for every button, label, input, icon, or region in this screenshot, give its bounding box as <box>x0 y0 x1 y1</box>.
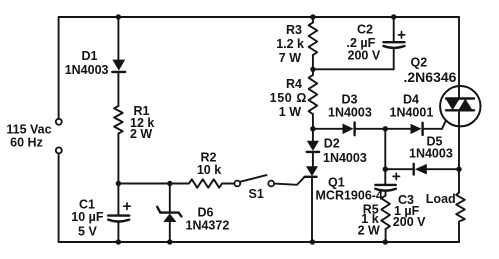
wire D5 anode lead <box>427 168 459 170</box>
node D6 bottom <box>167 239 172 244</box>
svg-text:D4: D4 <box>403 92 419 106</box>
svg-text:1N4003: 1N4003 <box>323 151 367 165</box>
node C3/D5 junction <box>383 167 388 172</box>
svg-text:R3: R3 <box>286 23 302 37</box>
wire triac MT2 lead <box>458 17 460 99</box>
resistor R5 <box>381 196 390 230</box>
node top of D1 column <box>116 14 121 19</box>
svg-text:C2: C2 <box>357 22 373 36</box>
svg-text:60 Hz: 60 Hz <box>10 136 43 150</box>
node top of R3 column <box>310 14 315 19</box>
diode D1 <box>112 60 125 71</box>
node R1/C1/mid rail <box>116 181 121 186</box>
wire bottom rail <box>59 241 459 243</box>
svg-text:D3: D3 <box>342 92 358 106</box>
node R5 bottom <box>383 239 388 244</box>
svg-text:150 Ω: 150 Ω <box>270 91 307 105</box>
wire D3 anode <box>313 128 343 130</box>
svg-text:1N4003: 1N4003 <box>328 105 372 119</box>
svg-text:S1: S1 <box>249 187 264 201</box>
svg-text:1N4003: 1N4003 <box>65 63 109 77</box>
wire D4 anode <box>385 128 410 130</box>
svg-text:Load: Load <box>426 192 456 206</box>
wire C2 bottom lead <box>393 48 395 69</box>
diode D4 <box>411 124 422 134</box>
wire Q1 cathode <box>311 177 313 242</box>
node Q1 bottom <box>310 239 315 244</box>
svg-text:200 V: 200 V <box>393 215 426 229</box>
node C1 bottom <box>116 239 121 244</box>
svg-text:1.2 k: 1.2 k <box>276 37 304 51</box>
wire mid rail <box>118 183 189 185</box>
svg-text:1N4003: 1N4003 <box>409 147 453 161</box>
svg-text:D6: D6 <box>198 206 214 220</box>
wire R1 bottom <box>117 134 119 184</box>
wire R4 bottom to D2 <box>312 114 314 141</box>
svg-text:D1: D1 <box>82 49 98 63</box>
resistor R3 <box>309 23 318 56</box>
svg-text:200 V: 200 V <box>348 48 381 62</box>
diode D3 <box>343 124 354 135</box>
svg-text:2 W: 2 W <box>358 223 380 237</box>
wire D3 cathode to node <box>355 128 386 130</box>
wire R2 to S1 <box>222 183 234 185</box>
wire C1 top lead <box>117 184 119 216</box>
svg-text:115 Vac: 115 Vac <box>6 123 51 137</box>
wire top rail <box>59 16 459 18</box>
wire R3 top lead <box>312 17 314 23</box>
wire left vertical lower <box>58 154 60 243</box>
wire D6 anode lead <box>169 222 171 242</box>
wire D1 anode <box>117 17 119 60</box>
resistor R1 <box>114 106 123 134</box>
switch S1 <box>234 181 240 187</box>
svg-text:1 W: 1 W <box>279 105 301 119</box>
diode D5 <box>413 164 415 175</box>
wire triac MT1 lead <box>458 110 460 192</box>
svg-text:1N4372: 1N4372 <box>186 219 230 233</box>
resistor Load <box>456 193 465 222</box>
SCR Q1 <box>306 166 318 176</box>
svg-text:10 µF: 10 µF <box>71 210 104 224</box>
resistor R2 <box>189 179 222 187</box>
wire R5 bottom <box>385 229 387 242</box>
node D3 row left <box>310 126 315 131</box>
wire C3 column upper <box>384 129 386 185</box>
wire C3 to R5 <box>385 191 387 196</box>
node MT1/D5 junction <box>456 167 461 172</box>
capacitor C3 <box>375 184 396 186</box>
svg-text:1N4001: 1N4001 <box>390 105 434 119</box>
svg-text:D2: D2 <box>324 137 340 151</box>
wire D2 cathode to Q1 <box>312 152 314 166</box>
svg-text:R4: R4 <box>286 77 302 91</box>
wire D1 cathode to R1 <box>117 72 119 106</box>
node top of C2 <box>391 14 396 19</box>
node D6 top <box>167 181 172 186</box>
svg-text:7 W: 7 W <box>279 51 301 65</box>
wire D6 cathode lead <box>169 184 171 213</box>
resistor R4 <box>309 75 318 114</box>
svg-text:10 k: 10 k <box>197 163 221 177</box>
wire left vertical upper <box>58 17 60 119</box>
triac Q2 <box>440 86 480 126</box>
diode D2 <box>307 141 319 151</box>
wire C1 bottom lead <box>117 222 119 242</box>
svg-text:Q2: Q2 <box>411 56 428 70</box>
zener D6 <box>157 207 181 217</box>
terminal lower AC input <box>56 147 62 153</box>
svg-text:MCR1906-4: MCR1906-4 <box>316 189 383 203</box>
wire D4 cathode to gate <box>423 128 442 130</box>
wire S1 to Q1 gate <box>274 177 304 185</box>
svg-text:Q1: Q1 <box>328 176 345 190</box>
wire triac gate <box>442 110 451 129</box>
wire R3 bottom to R4 top <box>312 55 314 75</box>
svg-text:.2N6346: .2N6346 <box>404 69 457 85</box>
capacitor C1 <box>108 214 129 216</box>
node R3/R4/C2 junction <box>310 67 315 72</box>
wire Load bottom <box>458 222 460 243</box>
wire D5 cathode lead <box>385 168 413 170</box>
wire C2 top lead <box>393 17 395 42</box>
svg-text:2 W: 2 W <box>130 127 152 141</box>
capacitor C2 <box>384 41 405 43</box>
wire junction to C2 bottom <box>313 68 394 70</box>
node D3/D4/C3 <box>383 126 388 131</box>
terminal upper AC input <box>56 119 62 125</box>
svg-text:5 V: 5 V <box>78 225 97 239</box>
